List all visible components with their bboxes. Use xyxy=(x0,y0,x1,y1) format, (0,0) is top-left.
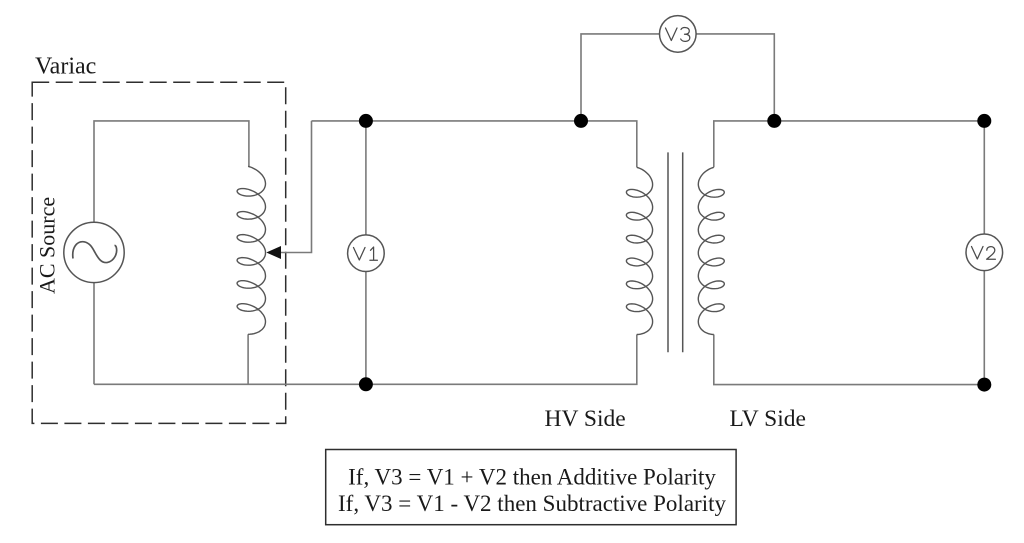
wire V3 left leg xyxy=(581,34,659,121)
wire LV top rail xyxy=(714,121,985,167)
wire variac coil bottom lead xyxy=(247,334,249,384)
transformer T1 core xyxy=(667,152,669,352)
wire variac wiper to top rail corner xyxy=(281,121,312,253)
junction node (top rail / V1) xyxy=(359,114,373,128)
svg-text:Variac: Variac xyxy=(35,54,96,80)
wire variac internal top (source top to coil top) xyxy=(94,121,249,222)
wire LV bottom rail xyxy=(714,335,985,385)
voltmeter V3 label xyxy=(666,28,690,42)
junction node (bottom rail / V2) xyxy=(977,378,991,392)
wire V2 branch top xyxy=(983,121,985,234)
wire V2 branch bottom xyxy=(983,271,985,385)
svg-text:LV Side: LV Side xyxy=(730,406,806,432)
svg-text:If, V3 = V1 - V2 then Subtract: If, V3 = V1 - V2 then Subtractive Polari… xyxy=(338,491,726,516)
junction node (bottom rail / V1) xyxy=(359,377,373,391)
wire main top rail HV xyxy=(312,121,637,167)
transformer T1 HV winding xyxy=(626,167,652,334)
wire V1 branch bottom xyxy=(365,272,367,385)
variac wiper arrow xyxy=(266,246,281,259)
variac dashed enclosure box xyxy=(32,82,286,423)
junction node (LV rail / V3 right) xyxy=(767,114,781,128)
wire main bottom rail (variac to HV coil) xyxy=(94,335,637,385)
result note box xyxy=(326,450,736,525)
voltmeter V2 circle xyxy=(966,234,1003,271)
svg-text:HV Side: HV Side xyxy=(545,406,626,432)
voltmeter V1 circle xyxy=(348,235,385,272)
junction node (top rail / V3 left) xyxy=(574,114,588,128)
wire V1 branch top xyxy=(365,121,367,235)
inductor L1 variac winding xyxy=(237,166,265,334)
AC source sine symbol xyxy=(73,242,117,263)
voltmeter V3 circle xyxy=(660,16,697,53)
junction node (LV rail / V2 top) xyxy=(977,114,991,128)
transformer T1 LV winding xyxy=(698,167,724,334)
voltmeter V2 label xyxy=(972,247,996,260)
wire variac internal bottom (source bottom to coil bottom, bottom rail inside box) xyxy=(93,283,95,385)
svg-text:If, V3 = V1 + V2 then Additive: If, V3 = V1 + V2 then Additive Polarity xyxy=(348,465,716,490)
voltmeter V1 label xyxy=(354,247,378,260)
svg-text:AC Source: AC Source xyxy=(35,197,60,294)
wire V3 right leg xyxy=(696,34,774,121)
AC source circle xyxy=(64,222,124,282)
